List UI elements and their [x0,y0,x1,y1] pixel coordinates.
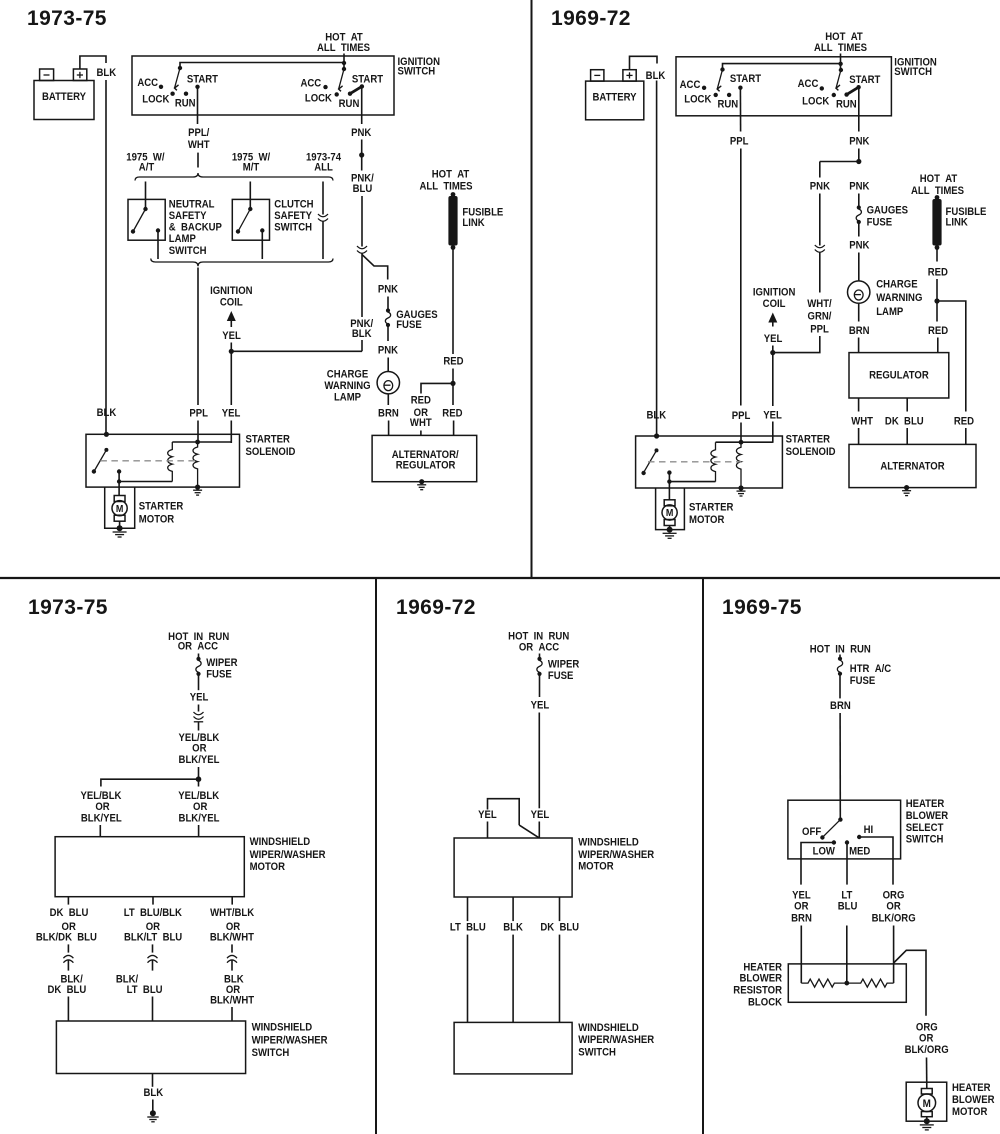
wire motor out 2 [512,897,514,921]
svg-text:WIPER: WIPER [206,657,238,669]
wire branch horizontal [101,779,199,786]
svg-text:OR: OR [886,901,901,913]
starter motor M2 [664,500,675,506]
node switch2 feed [838,62,842,66]
svg-text:HI: HI [864,825,874,837]
ground solenoid coil [738,485,743,490]
fusible link FL2 [935,195,940,200]
svg-text:M: M [923,1098,932,1110]
windshield wiper/washer switch box S4 [454,1022,572,1074]
svg-text:PPL: PPL [730,136,749,148]
node motor terminal [117,469,121,473]
wire ORG tap jumper [894,950,926,1015]
wire YEL left into motor [487,822,489,838]
svg-text:HEATER: HEATER [743,962,782,974]
ignition switch box [676,57,891,116]
wire left into motor [99,825,101,837]
svg-text:HOT AT: HOT AT [920,173,958,185]
node coil1 bottom junction [667,479,671,483]
svg-text:FUSE: FUSE [396,320,422,332]
ignition switch box [132,56,394,115]
wire fuse to PNK [858,224,860,237]
wire col1 to connector [67,944,69,952]
node ACC1 [159,85,163,89]
node ACC2 [323,85,327,89]
svg-text:BATTERY: BATTERY [42,91,86,103]
alternator box U3 [849,444,976,487]
wire RED to junction [452,369,454,384]
wire motor out 2 [152,897,154,905]
solenoid hold-in coil L4 [736,442,741,488]
wire BLK to ground [152,1100,154,1113]
ground starter motor [117,525,123,531]
node RUN2 [844,92,848,96]
svg-text:PNK: PNK [378,345,399,357]
svg-text:YEL: YEL [190,692,209,704]
svg-text:ACC: ACC [137,77,158,89]
wire coil1 bottom [119,481,172,483]
svg-text:PNK: PNK [849,181,870,193]
wire HI out [859,837,893,885]
svg-text:SELECT: SELECT [906,822,944,834]
svg-text:SOLENOID: SOLENOID [246,447,296,459]
svg-text:BLK/YEL: BLK/YEL [179,754,220,766]
node switch2 pivot [342,67,346,71]
svg-text:LOCK: LOCK [684,94,712,106]
svg-text:ALL TIMES: ALL TIMES [317,42,370,54]
svg-text:SAFETY: SAFETY [274,210,312,222]
svg-text:HEATER: HEATER [906,799,945,811]
svg-text:STARTER: STARTER [246,434,291,446]
svg-text:START: START [187,74,219,86]
svg-text:YEL: YEL [478,809,497,821]
brace top [135,173,333,181]
node LOCK1 [170,92,174,96]
windshield wiper/washer motor box M4 [454,838,572,897]
svg-text:BLK/YEL: BLK/YEL [81,813,122,825]
wire PNK branch down [819,162,821,178]
node OFF [820,835,824,839]
svg-text:YEL: YEL [531,700,550,712]
svg-text:LAMP: LAMP [169,234,196,246]
wire PNK branch horizontal [820,161,859,163]
svg-text:YEL/BLK: YEL/BLK [178,790,219,802]
wire RED from link [452,249,454,354]
wire YEL to PNK/BLK horizontal [231,350,362,352]
svg-text:DK BLU: DK BLU [885,416,924,428]
node START1 [738,86,742,90]
ground solenoid coil [195,485,200,490]
svg-text:1969-72: 1969-72 [551,7,631,30]
svg-text:ACC: ACC [798,79,819,91]
starter motor enclosure [105,487,135,528]
wire ORG into resistor block [893,926,895,984]
wire WHT into alternator [858,428,860,444]
connector inline col2 [148,955,158,962]
solenoid switch lever [104,448,108,452]
connector inline col1 [63,955,73,962]
wire motor out 1 [467,897,469,921]
wire lamp to BRN [858,303,860,321]
svg-text:MOTOR: MOTOR [139,514,175,526]
wire fuse to YEL [539,675,541,697]
gauges fuse F1 [386,308,390,312]
svg-text:BLK/WHT: BLK/WHT [210,932,255,944]
windshield wiper/washer motor box M3 [55,837,244,897]
node RUN1 [727,93,731,97]
wire motor out 1 [67,897,69,905]
starter motor enclosure [656,488,685,530]
node RUN2 [348,92,352,96]
resistor element 2 [847,979,894,987]
svg-text:WIPER/WASHER: WIPER/WASHER [578,850,654,862]
svg-text:NEUTRAL: NEUTRAL [169,199,215,211]
svg-text:MOTOR: MOTOR [250,861,286,873]
wire LOW out [801,843,834,885]
svg-text:OR: OR [95,801,110,813]
node switch1 pivot [720,67,724,71]
svg-text:START: START [730,74,762,86]
svg-text:DK BLU: DK BLU [540,922,579,934]
svg-text:CHARGE: CHARGE [876,279,918,291]
wire START2 PNK down [858,87,860,131]
panel divider vertical bottom left [375,577,377,1134]
wire PPL/WHT stub [197,153,199,168]
wire to gauges fuse [387,297,389,311]
node PNK splice [359,152,364,157]
node YEL/BLK junction [196,776,202,782]
svg-text:SWITCH: SWITCH [274,222,312,234]
starter solenoid box K1 [86,434,240,487]
svg-text:BLK/DK BLU: BLK/DK BLU [36,932,97,944]
svg-text:PNK: PNK [351,127,372,139]
svg-text:OR ACC: OR ACC [178,641,219,653]
svg-text:OR: OR [193,801,208,813]
svg-text:OFF: OFF [802,827,821,839]
wire LT into resistor block [846,926,848,984]
wire PNK/BLK upper [361,254,363,318]
ground alternator [419,479,424,484]
svg-text:ALL TIMES: ALL TIMES [419,181,472,193]
svg-text:LINK: LINK [946,217,969,229]
svg-text:RED: RED [442,408,462,420]
svg-text:SWITCH: SWITCH [894,67,932,79]
svg-text:WHT: WHT [188,139,210,151]
svg-text:RED: RED [443,356,463,368]
wire PPL into solenoid [740,423,742,444]
wire fuse to YEL [198,675,200,690]
svg-text:CLUTCH: CLUTCH [274,199,313,211]
svg-text:LOCK: LOCK [802,96,830,108]
svg-text:RED: RED [411,395,431,407]
gauges fuse F2 [857,205,861,209]
wire hot feed into switch [840,54,842,71]
svg-text:MED: MED [849,846,870,858]
node motor terminal [667,470,671,474]
wire WHT/GRN/PPL upper [819,253,821,293]
svg-text:BLOCK: BLOCK [748,997,783,1009]
wire to junction [198,767,200,779]
svg-text:BLOWER: BLOWER [740,973,783,985]
node YEL junction [770,350,775,355]
wire PPL lower [197,421,199,444]
svg-text:HTR A/C: HTR A/C [850,664,892,676]
svg-text:PNK: PNK [378,284,399,296]
wire RED OR WHT stub [420,431,422,436]
svg-text:RUN: RUN [717,99,738,111]
svg-text:LT BLU/BLK: LT BLU/BLK [124,907,183,919]
switch1 lever [717,70,722,89]
svg-text:BRN: BRN [849,325,870,337]
wire BRN to regulator [858,338,860,353]
svg-text:STARTER: STARTER [139,501,184,513]
wire fuse to PNK [387,327,389,342]
wire WHT/GRN/PPL lower [773,336,820,353]
svg-text:BLK: BLK [96,67,116,79]
svg-text:GAUGES: GAUGES [867,205,909,217]
node switch2 pivot [839,68,843,72]
connector inline PNK left [815,245,825,252]
wire battery + to BLK [80,56,106,69]
svg-text:WARNING: WARNING [876,293,922,305]
svg-text:1969-75: 1969-75 [722,596,802,619]
wire RED into alternator [965,428,967,444]
wire PNK [361,140,363,171]
node ACC1 [702,86,706,90]
wire START2 down [361,86,363,124]
solenoid pull-in coil L1 [168,442,173,482]
svg-text:1973-75: 1973-75 [28,596,108,619]
panel divider horizontal [0,577,1000,579]
wire motor terminal down [668,473,670,500]
svg-text:RED: RED [928,325,948,337]
wire YEL into resistor block [800,926,802,984]
node LOCK1 [714,93,718,97]
switch2 engaged contact RUN-START [350,86,362,93]
heater blower motor box M5 [906,1082,947,1121]
svg-text:MOTOR: MOTOR [578,861,614,873]
svg-text:PPL/: PPL/ [188,127,209,139]
svg-text:YEL: YEL [764,333,783,345]
wire motor out 3 [231,897,233,905]
clutch safety switch S2 [232,199,269,240]
svg-text:YEL: YEL [531,809,550,821]
node PPL on internal wire [739,440,744,445]
svg-text:WIPER/WASHER: WIPER/WASHER [578,1035,654,1047]
starter motor M1 [114,496,125,502]
wire MED out [846,843,848,885]
blower motor symbol [921,1089,932,1095]
wire 1973-74 ALL lower [322,221,324,259]
battery B1 [34,81,94,120]
connector inline col3 [227,955,237,962]
node select lever pivot [838,817,842,821]
wire col3 into switch [559,935,561,1023]
svg-text:OR: OR [919,1033,934,1045]
wire START1 down [197,87,199,124]
svg-text:LAMP: LAMP [334,392,361,404]
node LOW [832,840,836,844]
node BLK on solenoid [654,433,659,438]
svg-text:BLOWER: BLOWER [952,1095,995,1107]
connector inline YEL [194,712,204,719]
wire switch1 feed [723,64,841,69]
svg-text:SWITCH: SWITCH [398,66,436,78]
svg-text:YEL: YEL [763,410,782,422]
svg-text:BRN: BRN [378,408,399,420]
svg-text:SAFETY: SAFETY [169,210,207,222]
svg-text:RUN: RUN [836,99,857,111]
wire col1 into switch [67,997,69,1022]
switch2 lever [339,69,344,89]
svg-text:FUSE: FUSE [548,670,574,682]
wire 1973-74 ALL upper [322,182,324,215]
wire YEL long [538,713,540,809]
svg-text:START: START [352,74,384,86]
svg-text:BLU: BLU [353,183,373,195]
wire BRN to select switch [839,713,841,820]
wire fuse to BRN [839,675,841,698]
wire YEL to connector [198,705,200,712]
svg-text:PPL: PPL [810,324,829,336]
wire DK BLU [906,398,908,412]
svg-text:WHT: WHT [851,416,873,428]
svg-text:WINDSHIELD: WINDSHIELD [578,1022,639,1034]
wire battery + to BLK [630,56,658,69]
node RED junction [934,298,939,303]
neutral safety switch S1 [128,199,165,240]
wire col2 to connector [152,944,154,952]
svg-text:RED: RED [928,267,948,279]
svg-text:SWITCH: SWITCH [252,1047,290,1059]
svg-text:HOT AT: HOT AT [432,169,470,181]
svg-text:BLK: BLK [503,922,523,934]
wire RED from link [936,249,938,262]
svg-text:WHT: WHT [410,418,432,430]
wire to neutral safety switch [145,182,147,210]
svg-text:FUSE: FUSE [206,669,232,681]
arrow to ignition coil [227,311,236,321]
alternator/regulator box U1 [372,435,477,481]
wire RED to regulator [936,301,938,322]
svg-text:START: START [849,74,881,86]
svg-text:RESISTOR: RESISTOR [733,985,782,997]
battery B2 [586,81,644,120]
wire YEL into solenoid [772,422,774,443]
svg-text:BLK/ORG: BLK/ORG [872,913,916,925]
svg-text:IGNITION: IGNITION [210,285,252,297]
node switch2 feed [342,61,346,65]
node LOCK2 [335,92,339,96]
svg-text:LOCK: LOCK [142,94,170,106]
select switch lever [824,820,841,837]
svg-text:M: M [116,503,124,515]
wire PNK to lamp [858,253,860,282]
node START2 [360,84,364,88]
wire PPL upper [197,268,199,406]
wiper fuse F3 [198,654,200,658]
wiper fuse F4 [539,654,541,658]
heater blower resistor block box R1 [788,964,906,1002]
resistor element 1 [801,979,847,987]
wire right branch [198,779,200,786]
node HI [857,835,861,839]
svg-text:1973-75: 1973-75 [27,7,107,30]
svg-text:WINDSHIELD: WINDSHIELD [578,837,639,849]
wire switch1 feed [180,63,344,68]
svg-text:SWITCH: SWITCH [578,1047,616,1059]
svg-text:FUSE: FUSE [850,676,876,688]
svg-text:BLK: BLK [143,1088,163,1100]
svg-text:BLK/ORG: BLK/ORG [905,1045,949,1057]
wire col3 to connector [231,944,233,952]
connector inline 1973-74 [318,214,328,221]
heater blower select switch box S5 [788,800,901,859]
svg-text:BLK/YEL: BLK/YEL [179,813,220,825]
wire PPL long [740,149,742,406]
wire branch to gauges fuse [362,255,388,280]
switch1 lever [175,68,180,88]
wire neutral switch out [157,231,159,260]
wire branch RED OR WHT [421,383,453,393]
wire RED branch to alternator [937,301,966,412]
svg-text:ACC: ACC [680,80,701,92]
svg-text:1969-72: 1969-72 [396,596,476,619]
wire motor terminal down [118,472,120,496]
wire RED into alternator [453,421,455,436]
svg-text:ORG: ORG [916,1022,938,1034]
wire col2 into switch [152,997,154,1022]
wire YEL right into motor [538,822,540,838]
wire ORG to blower motor [926,1058,928,1089]
svg-text:PNK: PNK [810,181,831,193]
svg-text:MOTOR: MOTOR [952,1107,988,1119]
node MED [845,840,849,844]
svg-text:COIL: COIL [220,297,243,309]
svg-text:BLK: BLK [646,70,666,82]
svg-text:PPL: PPL [189,408,208,420]
windshield wiper/washer switch box S3 [56,1021,245,1074]
panel divider vertical bottom right [702,577,704,1134]
wire BLK battery to starter solenoid [656,81,658,437]
svg-text:BLOWER: BLOWER [906,810,949,822]
wire col2 into switch [512,935,514,1023]
wire YEL internal top [716,441,773,443]
ground alternator [904,485,909,490]
starter solenoid box K2 [636,436,783,488]
svg-text:M: M [666,508,674,520]
solenoid hold-in coil L2 [193,442,198,487]
svg-text:M/T: M/T [243,162,260,174]
node switch1 pivot [178,66,182,70]
wire clutch switch out [261,231,263,260]
wire col3 into switch [231,1007,233,1021]
node RUN1 [184,92,188,96]
wire jumper diagonal [519,825,539,838]
panel divider vertical top [531,0,533,577]
svg-text:REGULATOR: REGULATOR [396,460,456,472]
svg-text:BATTERY: BATTERY [592,92,636,104]
svg-text:ALTERNATOR: ALTERNATOR [880,461,945,473]
dashed plunger link [100,460,197,462]
svg-text:YEL: YEL [222,331,241,343]
wire coil1 bottom [669,481,715,483]
node YEL junction [229,349,234,354]
svg-text:PNK: PNK [849,240,870,252]
wire right into motor [198,825,200,837]
wire RED to junction [936,279,938,301]
switch2 lever [836,70,841,88]
